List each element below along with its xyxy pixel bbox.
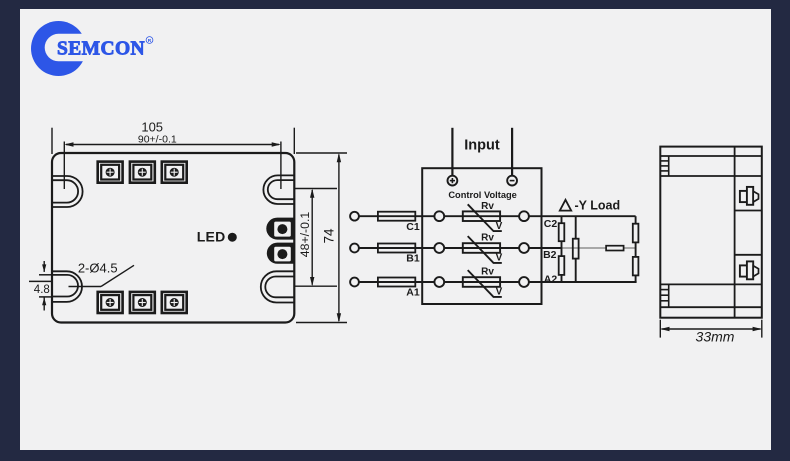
output terminal bump 2 (right edge) — [267, 243, 295, 264]
minus input terminal — [507, 176, 517, 186]
LED indicator dot — [228, 233, 237, 242]
top band line — [660, 155, 762, 157]
output terminal bump 1 (right edge) — [266, 218, 294, 240]
extension line left outer — [51, 128, 53, 154]
plus input terminal — [448, 176, 458, 186]
svg-text:SEMCON: SEMCON — [57, 39, 145, 60]
mounting slot bottom-right inner — [265, 277, 294, 298]
dimension 48 extension top — [294, 188, 337, 190]
svg-text:Rv: Rv — [481, 267, 494, 278]
svg-text:Control Voltage: Control Voltage — [448, 190, 517, 200]
SSR box — [422, 168, 541, 304]
label Rv row A — [481, 267, 494, 278]
clamp terminal 2 — [740, 261, 759, 279]
right column line 1 — [735, 210, 762, 212]
svg-text:Input: Input — [464, 138, 500, 154]
svg-text:A1: A1 — [406, 287, 420, 299]
dimension text 4.8 — [34, 284, 50, 296]
input wire - — [511, 128, 513, 176]
wire middle load branch — [575, 216, 577, 282]
vertical divider — [734, 147, 736, 318]
33mm extension right — [761, 320, 763, 338]
svg-text:33mm: 33mm — [696, 329, 735, 345]
dimension 4.8 arrow top — [42, 261, 46, 272]
dimension 48 extension bottom — [294, 285, 337, 287]
wire C2 out — [529, 215, 636, 217]
svg-text:B2: B2 — [543, 249, 557, 261]
label V row B — [496, 253, 503, 264]
screw terminal block top 3 — [162, 162, 187, 183]
svg-text:105: 105 — [141, 120, 163, 135]
clamp terminal 1 — [740, 187, 759, 205]
screw terminal block bottom 1 — [98, 292, 123, 313]
wire A1 — [359, 281, 435, 283]
bottom fins — [660, 284, 668, 307]
dimension line 48 — [310, 189, 314, 287]
dimension line 90 with arrows — [64, 142, 281, 146]
svg-text:V: V — [496, 221, 503, 232]
mounting slot top-left inner — [52, 180, 78, 202]
svg-text:4.8: 4.8 — [34, 284, 50, 296]
dimension line 74 — [337, 153, 341, 323]
wire left load branch middle — [561, 241, 563, 256]
svg-text:B1: B1 — [406, 253, 420, 265]
terminal circle B2 box — [519, 243, 529, 253]
wire B2 out (black part) — [529, 247, 562, 249]
dimension text 48+/-0.1 — [298, 212, 312, 258]
varistor C diagonal — [468, 204, 502, 231]
dimension text 90+/-0.1 — [138, 134, 177, 146]
LED label — [197, 229, 226, 245]
terminal circle B1 box — [434, 243, 444, 253]
mounting slot bottom-right outer — [261, 271, 295, 302]
label C2 — [544, 218, 558, 230]
logo SEMCON — [31, 21, 153, 76]
-Y Load label — [575, 198, 621, 212]
terminal circle A1 box — [434, 277, 444, 287]
wire right load branch upper — [635, 216, 637, 224]
label B1 — [406, 253, 420, 265]
wire A2 out — [529, 281, 637, 283]
extension line left inner — [63, 142, 65, 190]
load resistor left upper — [559, 223, 565, 241]
wire A inside box — [444, 281, 519, 283]
wire B inside box — [444, 247, 519, 249]
screw terminal block bottom 2 — [130, 292, 155, 313]
leader line 2-O4.5 — [69, 265, 135, 286]
load resistor middle — [573, 239, 579, 259]
wire B1 — [359, 247, 435, 249]
delta symbol — [560, 200, 571, 211]
mounting slot top-right inner — [268, 180, 294, 199]
label V row A — [496, 287, 503, 298]
mounting slot top-left outer — [52, 176, 83, 207]
svg-text:2-Ø4.5: 2-Ø4.5 — [78, 260, 118, 275]
right column line 2 — [735, 254, 762, 256]
dimension 4.8 extension top — [39, 274, 52, 276]
load resistor right upper — [633, 224, 639, 243]
side body outline — [660, 147, 762, 318]
wire right load branch middle — [635, 242, 637, 257]
label Rv row B — [481, 233, 494, 244]
terminal circle B1 outer — [350, 244, 359, 253]
svg-text:V: V — [496, 287, 503, 298]
Input label — [464, 138, 500, 154]
label A2 — [544, 273, 558, 285]
label B2 — [543, 249, 557, 261]
svg-text:48+/-0.1: 48+/-0.1 — [298, 212, 312, 258]
screw terminal block top 2 — [130, 162, 155, 183]
terminal circle A1 outer — [350, 278, 359, 287]
terminal circle C1 outer — [350, 212, 359, 221]
dimension 74 extension bottom — [296, 322, 347, 324]
load resistor horizontal on B2 — [606, 246, 624, 251]
svg-text:C2: C2 — [544, 218, 558, 230]
screw terminal block top 1 — [98, 162, 123, 183]
svg-text:74: 74 — [322, 228, 337, 244]
varistor A body — [463, 277, 500, 287]
dimension 4.8 arrow bottom — [42, 297, 46, 310]
wire C1 — [359, 215, 435, 217]
svg-text:Rv: Rv — [481, 233, 494, 244]
dimension text 105 — [141, 120, 163, 135]
wire C inside box — [444, 215, 519, 217]
varistor A diagonal — [468, 270, 502, 297]
fuse C — [378, 212, 415, 221]
terminal circle C1 box — [434, 211, 444, 221]
fuse A — [378, 278, 415, 287]
varistor C body — [463, 211, 500, 221]
leader text 2-O4.5 — [78, 260, 118, 275]
lower cross line — [660, 283, 762, 285]
wire left load branch upper — [561, 216, 563, 223]
extension line right inner — [280, 142, 282, 190]
svg-text:V: V — [496, 253, 503, 264]
svg-text:90+/-0.1: 90+/-0.1 — [138, 134, 177, 146]
dimension text 74 — [322, 228, 337, 244]
svg-text:LED: LED — [197, 229, 226, 245]
mounting slot top-right outer — [263, 175, 294, 204]
relay body outline — [52, 153, 294, 323]
gray wire B2 extension — [562, 247, 636, 249]
mounting slot bottom-left outer — [52, 271, 82, 302]
svg-text:R: R — [148, 38, 152, 44]
wire left load branch lower — [561, 275, 563, 282]
label Rv row C — [481, 201, 494, 212]
dimension 74 extension top — [296, 152, 347, 154]
svg-text:C1: C1 — [406, 221, 420, 233]
dimension 4.8 extension bottom — [39, 296, 52, 298]
svg-text:A2: A2 — [544, 273, 558, 285]
input wire + — [451, 128, 453, 176]
reference line left — [29, 280, 52, 282]
varistor B body — [463, 243, 500, 253]
bottom band line — [660, 306, 762, 308]
load resistor left lower — [559, 256, 565, 275]
33mm dimension line — [660, 327, 762, 331]
label C1 — [406, 221, 420, 233]
label V row C — [496, 221, 503, 232]
Control Voltage label — [448, 190, 517, 200]
extension line right outer — [293, 128, 295, 154]
33mm text — [696, 329, 735, 345]
svg-text:Rv: Rv — [481, 201, 494, 212]
terminal circle C2 box — [519, 211, 529, 221]
wire right load branch lower — [635, 275, 637, 282]
screw terminal block bottom 3 — [162, 292, 187, 313]
mounting slot bottom-left inner — [52, 275, 78, 297]
fuse B — [378, 244, 415, 253]
top fins — [660, 156, 668, 176]
label A1 — [406, 287, 420, 299]
load resistor right lower — [633, 257, 639, 276]
svg-text:-Y Load: -Y Load — [575, 198, 621, 212]
33mm extension left — [659, 320, 661, 338]
terminal circle A2 box — [519, 277, 529, 287]
varistor B diagonal — [468, 236, 502, 263]
upper cross line — [660, 175, 762, 177]
